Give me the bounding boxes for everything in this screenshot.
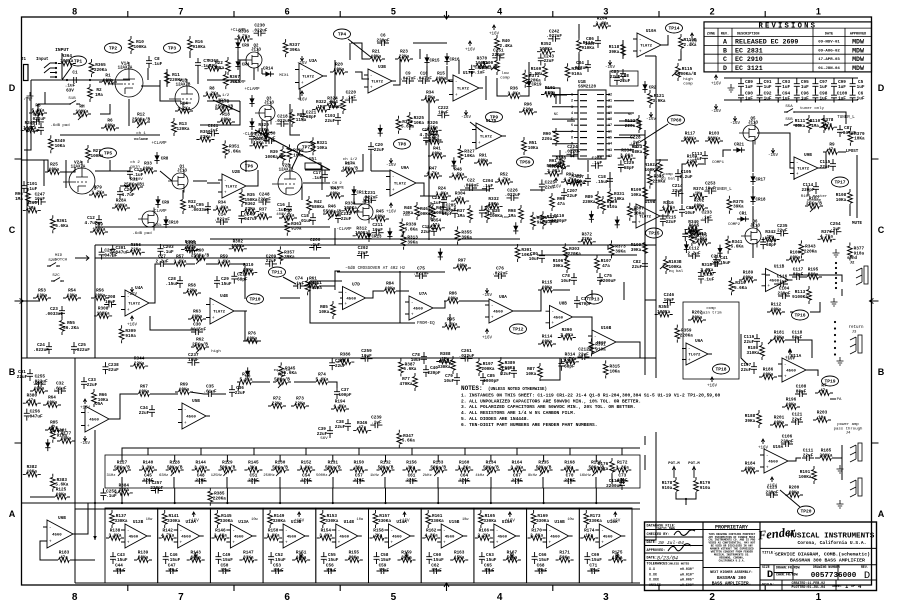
node +16V — [770, 477, 773, 482]
svg-text:100pF: 100pF — [338, 393, 351, 398]
wire — [525, 310, 530, 312]
node -16V — [83, 436, 86, 441]
node -16V — [510, 552, 513, 557]
svg-text:12AX7A: 12AX7A — [71, 166, 86, 170]
svg-text:CR18: CR18 — [755, 199, 766, 203]
svg-text:-16V: -16V — [482, 294, 493, 298]
svg-text:U5A: U5A — [95, 402, 103, 407]
wire — [609, 172, 611, 188]
test point TP59 — [517, 157, 534, 167]
svg-text:2200uF: 2200uF — [600, 279, 616, 284]
wire — [210, 238, 520, 240]
svg-text:+: + — [49, 540, 52, 545]
svg-text:S1B: S1B — [68, 97, 76, 101]
svg-text:±0.005": ±0.005" — [680, 578, 694, 582]
test point TP7 — [298, 142, 315, 152]
svg-text:14: 14 — [608, 143, 612, 147]
svg-text:+: + — [232, 541, 235, 546]
svg-text:CR15: CR15 — [429, 60, 440, 64]
svg-text:TP14: TP14 — [668, 26, 679, 32]
svg-text:4560: 4560 — [786, 370, 796, 374]
op-amp U6A — [686, 343, 708, 365]
wire — [587, 160, 589, 172]
svg-text:200Ka: 200Ka — [481, 367, 494, 372]
wire EQ cell — [210, 508, 263, 583]
svg-text:330Ka: 330Ka — [589, 519, 602, 524]
wire — [334, 228, 336, 245]
wire — [545, 88, 560, 104]
diode CR30 — [387, 231, 392, 236]
node -16V — [389, 158, 392, 163]
svg-text:+16V: +16V — [399, 520, 410, 524]
wire — [464, 448, 466, 455]
svg-text:5.6Ka: 5.6Ka — [734, 286, 747, 291]
svg-text:-: - — [766, 454, 769, 459]
svg-text:CR21: CR21 — [734, 144, 745, 148]
svg-text:U15B: U15B — [449, 520, 460, 525]
svg-text:+: + — [392, 188, 395, 193]
svg-text:-: - — [443, 529, 446, 534]
svg-text:tuner only: tuner only — [800, 106, 825, 111]
wire — [31, 79, 130, 81]
svg-text:+: + — [766, 466, 769, 471]
svg-text:68Ka: 68Ka — [632, 150, 643, 155]
ground — [831, 298, 838, 306]
switch S5B — [784, 122, 797, 126]
svg-text:.1uF: .1uF — [163, 250, 174, 255]
svg-text:ZONE: ZONE — [707, 33, 715, 37]
svg-text:+: + — [87, 424, 90, 429]
svg-text:470Ka: 470Ka — [399, 382, 412, 387]
svg-text:C: C — [9, 225, 16, 235]
svg-text:330Ka: 330Ka — [273, 519, 286, 524]
svg-text:-: - — [491, 304, 494, 309]
svg-text:4560: 4560 — [550, 536, 560, 540]
svg-text:39Ka: 39Ka — [615, 249, 626, 254]
svg-text:U7D: U7D — [352, 282, 360, 287]
connector J4B — [850, 480, 856, 497]
op-amp U19A — [764, 449, 788, 473]
svg-text:CR9: CR9 — [242, 45, 250, 49]
svg-text:4560: 4560 — [493, 311, 503, 315]
wire — [616, 342, 640, 358]
svg-text:-CLAMP: -CLAMP — [336, 228, 352, 232]
svg-text:U8A: U8A — [499, 295, 507, 300]
wire — [591, 290, 593, 299]
wire — [790, 311, 794, 313]
wire — [818, 152, 826, 168]
node -16V — [485, 288, 488, 293]
connector J2 — [856, 268, 862, 285]
svg-text:high: high — [683, 77, 693, 82]
svg-text:+: + — [370, 86, 373, 91]
svg-text:TL072: TL072 — [371, 81, 384, 85]
svg-text:910Ka: 910Ka — [192, 45, 205, 50]
svg-text:COMP2: COMP2 — [728, 223, 741, 227]
svg-text:10w: 10w — [567, 518, 574, 522]
wire — [516, 448, 518, 455]
svg-text:22: 22 — [608, 94, 612, 98]
svg-text:-: - — [224, 179, 227, 184]
svg-text:10Ka: 10Ka — [505, 366, 516, 371]
wire EQ cell — [474, 508, 527, 583]
wire — [150, 264, 157, 303]
svg-text:POT-M: POT-M — [668, 462, 680, 466]
wire — [200, 448, 202, 455]
svg-text:39Ka: 39Ka — [284, 255, 295, 260]
svg-text:.1uF: .1uF — [474, 71, 485, 76]
wire — [44, 92, 46, 104]
svg-text:C1: C1 — [72, 71, 78, 76]
wire — [449, 314, 451, 327]
svg-text:eq bal: eq bal — [669, 269, 684, 274]
transistor Q4 — [357, 204, 373, 220]
svg-text:10uF: 10uF — [444, 379, 455, 384]
svg-text:10w: 10w — [462, 518, 469, 522]
svg-text:09-AUG-02: 09-AUG-02 — [818, 49, 840, 53]
wire — [660, 200, 668, 216]
wire EQ cell — [316, 508, 369, 583]
svg-text:22uF: 22uF — [325, 119, 336, 124]
svg-text:+: + — [767, 284, 770, 289]
svg-text:APPROVED: APPROVED — [850, 33, 866, 37]
svg-text:BASSMAN 300 BASS AMPLIFIER: BASSMAN 300 BASS AMPLIFIER — [790, 558, 865, 564]
svg-text:REV.: REV. — [721, 33, 729, 37]
svg-text:D: D — [767, 569, 773, 581]
wire band C rail — [95, 257, 330, 259]
wire — [122, 448, 640, 455]
wire — [420, 195, 436, 197]
svg-text:1uF: 1uF — [801, 96, 809, 101]
svg-text:B: B — [9, 367, 16, 377]
svg-text:-: - — [285, 529, 288, 534]
svg-text:EC 2910: EC 2910 — [735, 56, 763, 63]
svg-text:J1: J1 — [21, 58, 27, 62]
svg-text:220pF: 220pF — [427, 371, 440, 376]
svg-text:47a: 47a — [557, 202, 565, 207]
wire — [22, 300, 40, 302]
wire — [290, 104, 300, 135]
svg-text:400V: 400V — [276, 213, 286, 217]
svg-text:330Ka: 330Ka — [536, 519, 549, 524]
wire — [476, 300, 489, 302]
svg-text:CALIFORNIA U.S.A.: CALIFORNIA U.S.A. — [719, 559, 745, 562]
wire EQ bottom — [75, 582, 640, 584]
svg-text:39Ka: 39Ka — [553, 264, 564, 269]
svg-text:-: - — [344, 291, 347, 296]
svg-text:1Ma: 1Ma — [15, 197, 23, 202]
test point TP1 — [70, 56, 87, 66]
svg-text:TL072: TL072 — [797, 168, 810, 172]
node -16V — [194, 552, 197, 557]
svg-text:10Ka: 10Ka — [464, 154, 475, 159]
wire — [173, 477, 175, 488]
svg-text:-: - — [455, 80, 458, 85]
tube V1A — [115, 69, 143, 97]
svg-text:220Ka: 220Ka — [568, 252, 581, 257]
wire — [141, 80, 160, 86]
test point TP18 — [713, 364, 730, 374]
tube V2A — [69, 168, 95, 194]
svg-text:68pF: 68pF — [766, 243, 777, 248]
svg-text:+16V: +16V — [758, 447, 769, 451]
diode CR9A — [155, 199, 160, 204]
svg-text:12: 12 — [608, 155, 612, 159]
svg-text:MUSICAL INSTRUMENTS: MUSICAL INSTRUMENTS — [788, 533, 875, 541]
op-amp U3A — [299, 63, 323, 89]
svg-text:gain: gain — [130, 164, 140, 169]
svg-text:-16V: -16V — [730, 122, 741, 126]
svg-text:16kHz: 16kHz — [580, 473, 591, 478]
svg-text:-6dB CROSSOVER AT 402 Hz: -6dB CROSSOVER AT 402 Hz — [345, 266, 406, 271]
svg-text:220a: 220a — [625, 124, 636, 129]
diode CR10 — [163, 219, 168, 224]
svg-text:+: + — [338, 541, 341, 546]
svg-text:J3: J3 — [852, 331, 857, 335]
svg-text:22uF: 22uF — [620, 79, 631, 84]
svg-text:4kHz: 4kHz — [475, 473, 484, 478]
svg-text:-16V: -16V — [401, 558, 412, 562]
svg-text:S2B: S2B — [48, 259, 56, 263]
svg-text:100Ka: 100Ka — [798, 475, 811, 480]
svg-text:5.6Ka: 5.6Ka — [55, 483, 68, 488]
svg-text:120Ka: 120Ka — [176, 127, 189, 132]
svg-text:22uF: 22uF — [544, 59, 555, 64]
svg-text:J113: J113 — [750, 225, 760, 229]
wire — [245, 311, 258, 341]
svg-text:+: + — [491, 316, 494, 321]
op-amp U13A — [230, 524, 252, 548]
svg-text:low: low — [501, 71, 509, 76]
test point TP8 — [394, 139, 411, 149]
wire — [147, 448, 149, 455]
svg-text:BASSMAN 300: BASSMAN 300 — [717, 576, 746, 581]
svg-text:1000pF: 1000pF — [483, 379, 499, 384]
wire — [109, 394, 138, 419]
svg-text:4. ALL RESISTORS ARE 1/4 W 5%: 4. ALL RESISTORS ARE 1/4 W 5% CARBON FIL… — [461, 410, 576, 416]
wire — [645, 55, 656, 57]
svg-text:100Ka: 100Ka — [133, 45, 146, 50]
svg-text:5: 5 — [391, 592, 397, 603]
svg-text:22uF: 22uF — [610, 75, 621, 80]
svg-text:TP12: TP12 — [512, 327, 523, 333]
svg-text:-6dB pad: -6dB pad — [50, 123, 70, 128]
svg-text:-: - — [784, 363, 787, 368]
svg-text:.15uF: .15uF — [325, 558, 338, 563]
wire — [595, 477, 597, 488]
svg-text:4560: 4560 — [89, 419, 99, 423]
svg-text:INPUT: INPUT — [55, 47, 69, 53]
tube V2B — [278, 171, 302, 195]
svg-text:3: 3 — [603, 7, 608, 17]
svg-text:8: 8 — [72, 592, 78, 603]
svg-text:+16V: +16V — [610, 520, 621, 524]
wire right bus2 — [644, 130, 646, 375]
svg-text:1uF: 1uF — [764, 85, 772, 90]
svg-text:-16V: -16V — [507, 558, 518, 562]
wire — [200, 101, 240, 125]
svg-text:1uF: 1uF — [819, 96, 827, 101]
wire — [189, 52, 191, 58]
wire — [542, 477, 544, 488]
svg-text:U3A: U3A — [309, 59, 317, 64]
svg-text:TP17: TP17 — [834, 180, 845, 186]
wire — [607, 245, 609, 250]
connector J1 — [24, 65, 29, 81]
svg-text:-: - — [688, 347, 691, 352]
svg-text:.022uF: .022uF — [74, 348, 90, 353]
wire — [358, 448, 360, 455]
svg-text:10Ka: 10Ka — [55, 144, 66, 149]
svg-text:TL072: TL072 — [225, 186, 238, 190]
svg-text:910a: 910a — [700, 486, 711, 491]
svg-text:(UNLESS NOTED OTHERWISE): (UNLESS NOTED OTHERWISE) — [488, 387, 547, 392]
svg-text:1Ma: 1Ma — [811, 124, 819, 129]
svg-text:POT-M: POT-M — [688, 462, 700, 466]
svg-text:-16V: -16V — [461, 116, 472, 120]
svg-text:.1uF: .1uF — [485, 211, 496, 216]
op-amp U3B — [368, 69, 392, 93]
op-amp U8B — [550, 306, 573, 329]
test point TP4 — [334, 29, 351, 39]
svg-text:.047uF: .047uF — [426, 139, 442, 144]
svg-text:01-JUN-04: 01-JUN-04 — [818, 67, 840, 71]
svg-text:J113: J113 — [264, 102, 274, 106]
svg-text:-: - — [548, 529, 551, 534]
svg-text:REVISIONS: REVISIONS — [758, 22, 817, 30]
wire — [621, 448, 623, 455]
wire — [752, 243, 754, 258]
node +16V — [403, 512, 406, 517]
svg-text:0057736000: 0057736000 — [811, 572, 857, 580]
svg-text:+: + — [180, 541, 183, 546]
svg-text:4560: 4560 — [392, 536, 402, 540]
svg-text:J4: J4 — [846, 432, 851, 436]
svg-text:-: - — [127, 529, 130, 534]
svg-text:.022uF: .022uF — [30, 117, 46, 122]
svg-text:+CLAMP: +CLAMP — [244, 88, 260, 92]
svg-text:+: + — [455, 93, 458, 98]
node +16V — [130, 316, 133, 321]
wire — [788, 458, 801, 461]
test point TP2 — [105, 43, 122, 53]
diode CR28 — [451, 161, 456, 166]
svg-text:MUTE: MUTE — [852, 222, 863, 226]
svg-text:220a: 220a — [542, 137, 553, 142]
svg-text:4560: 4560 — [445, 536, 455, 540]
svg-text:.15uF: .15uF — [536, 558, 549, 563]
node -16V — [464, 110, 467, 115]
op-amp U5A — [85, 406, 109, 432]
node +16V — [761, 439, 764, 444]
svg-text:330Ka: 330Ka — [431, 519, 444, 524]
svg-text:+16V: +16V — [687, 41, 698, 45]
wire — [567, 120, 575, 122]
svg-text:63V: 63V — [66, 88, 74, 93]
wire — [94, 330, 96, 358]
wire — [94, 186, 96, 190]
svg-text:TP18: TP18 — [715, 367, 726, 373]
svg-text:return: return — [848, 326, 864, 330]
op-amp U7D — [343, 287, 366, 310]
svg-text:+: + — [301, 81, 304, 86]
svg-text:-16V: -16V — [127, 293, 138, 297]
svg-text:4560: 4560 — [346, 298, 356, 302]
svg-text:+: + — [784, 375, 787, 380]
svg-text:TP3: TP3 — [168, 46, 177, 52]
svg-text:U10B: U10B — [645, 200, 656, 205]
svg-text:+: + — [639, 50, 642, 55]
svg-text:NOTES:: NOTES: — [461, 385, 483, 392]
tube V1B — [175, 86, 199, 110]
svg-text:-: - — [496, 529, 499, 534]
svg-text:9100Ka: 9100Ka — [792, 295, 808, 300]
wire — [645, 299, 656, 301]
svg-text:250Hz: 250Hz — [263, 474, 274, 478]
svg-text:1Ma: 1Ma — [457, 214, 465, 219]
svg-text:-CLAMP: -CLAMP — [151, 210, 167, 214]
svg-text:5.6Ka: 5.6Ka — [284, 371, 297, 376]
svg-text:RELEASED EC 2699: RELEASED EC 2699 — [735, 39, 798, 46]
svg-text:X.XXX: X.XXX — [649, 578, 659, 582]
svg-text:+: + — [601, 541, 604, 546]
wire gain trim box — [683, 302, 739, 379]
svg-text:910a: 910a — [662, 486, 673, 491]
svg-text:22uF: 22uF — [335, 425, 346, 430]
wire — [656, 159, 668, 161]
svg-text:4560: 4560 — [769, 280, 779, 284]
svg-text:.047uF: .047uF — [242, 217, 258, 222]
svg-text:39Ka: 39Ka — [461, 235, 472, 240]
svg-text:4: 4 — [571, 112, 573, 116]
op-amp U8A — [489, 299, 513, 323]
svg-text:1: 1 — [816, 592, 822, 603]
svg-text:X.X: X.X — [649, 567, 655, 571]
switch S1B — [67, 101, 80, 105]
wire — [75, 508, 640, 510]
svg-text:21: 21 — [608, 100, 612, 104]
svg-text:U6A: U6A — [695, 339, 703, 344]
svg-text:CR1: CR1 — [739, 213, 747, 217]
op-amp U15A — [494, 524, 516, 548]
connector J4 — [850, 445, 856, 462]
op-amp U13B — [283, 524, 305, 548]
svg-text:DATE:: DATE: — [647, 541, 658, 545]
svg-text:+: + — [478, 141, 481, 146]
wire — [645, 522, 656, 540]
svg-text:J2: J2 — [850, 262, 855, 266]
wire — [490, 477, 492, 488]
svg-text:TP20: TP20 — [800, 509, 811, 515]
wire — [619, 121, 640, 130]
node -16V — [300, 56, 303, 61]
op-amp U11B — [766, 269, 789, 292]
svg-text:+: + — [224, 191, 227, 196]
svg-text:CR14: CR14 — [263, 68, 274, 72]
op-amp U9B — [794, 157, 818, 179]
svg-text:6. TEN-DIGIT PART NUMBERS ARE: 6. TEN-DIGIT PART NUMBERS ARE FENDER PAR… — [461, 422, 597, 428]
wire — [110, 170, 130, 172]
svg-text:Input: Input — [36, 58, 49, 62]
svg-text:NOTCH: NOTCH — [55, 258, 68, 262]
svg-text:63Hz: 63Hz — [159, 474, 168, 478]
svg-text:NEXT HIGHER ASSEMBLY:: NEXT HIGHER ASSEMBLY: — [710, 571, 753, 575]
svg-text:A: A — [723, 39, 727, 46]
test point TP14 — [666, 23, 683, 33]
svg-text:10Ka: 10Ka — [521, 253, 532, 258]
svg-text:68pF: 68pF — [237, 277, 248, 282]
wire band C left — [94, 245, 96, 330]
